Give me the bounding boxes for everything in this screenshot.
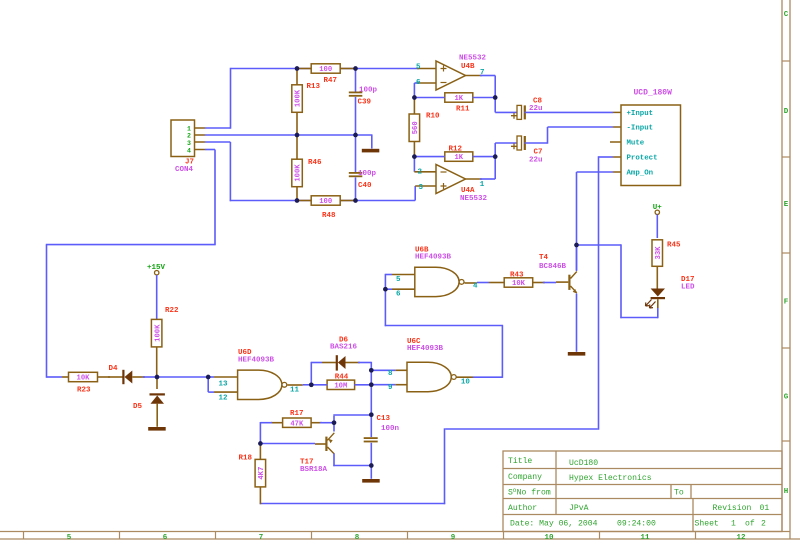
svg-text:2: 2	[187, 133, 191, 140]
R47 leads	[297, 68, 311, 70]
sheet border bottom inner line	[0, 531, 790, 533]
wire J7 pin1 to top rail	[205, 127, 231, 129]
wire J7 pin4 long loop left	[205, 149, 215, 151]
svg-text:12: 12	[736, 534, 746, 542]
resistor R23	[69, 372, 98, 381]
svg-text:of: of	[745, 520, 755, 529]
svg-text:D4: D4	[109, 365, 119, 373]
svg-text:4: 4	[187, 147, 191, 154]
module UCD_180W	[621, 105, 681, 186]
svg-text:11: 11	[290, 386, 300, 394]
svg-text:Protect: Protect	[627, 155, 658, 163]
wire D6/R44 right junction column	[370, 362, 372, 437]
U4A pin2 wire	[413, 157, 415, 172]
svg-text:R12: R12	[449, 146, 463, 154]
svg-text:2: 2	[761, 520, 766, 529]
svg-text:HEF4093B: HEF4093B	[238, 357, 275, 365]
R48 leads	[297, 200, 311, 202]
sheet border bottom outer line	[0, 538, 800, 540]
wire U4B pin5 stub	[417, 68, 436, 70]
svg-text:4K7: 4K7	[258, 467, 266, 480]
svg-text:8: 8	[355, 534, 360, 542]
svg-text:LED: LED	[681, 283, 695, 291]
U6B input wires	[385, 274, 392, 276]
svg-text:10: 10	[461, 379, 471, 387]
svg-text:Author: Author	[508, 504, 537, 513]
resistor R17	[283, 418, 312, 427]
R45 leads	[656, 266, 658, 288]
svg-text:Date: May 06, 2004: Date: May 06, 2004	[510, 520, 598, 529]
svg-text:C7: C7	[534, 149, 543, 157]
wire Amp_On net down	[577, 171, 614, 173]
svg-text:+15V: +15V	[147, 264, 166, 272]
T17 collector wire down	[333, 454, 335, 467]
resistor R12	[445, 152, 473, 161]
resistor R18	[255, 459, 266, 487]
svg-text:E: E	[784, 201, 789, 209]
svg-text:JPvA: JPvA	[569, 504, 589, 513]
svg-text:01: 01	[760, 504, 770, 513]
wire R17 left down to base net	[259, 422, 261, 444]
svg-text:100K: 100K	[295, 89, 303, 107]
svg-text:10M: 10M	[334, 382, 347, 390]
wire base net to T17	[260, 443, 315, 445]
svg-text:100: 100	[319, 66, 332, 74]
svg-text:33K: 33K	[655, 246, 663, 260]
wire LED branch	[577, 244, 622, 246]
svg-text:5: 5	[396, 276, 401, 284]
U4B output pin7 wire	[466, 75, 483, 77]
resistor R46	[292, 159, 303, 187]
svg-text:10K: 10K	[512, 280, 526, 288]
U6C input wires	[371, 369, 395, 371]
bottom column numbers 5-12	[67, 534, 746, 542]
svg-text:R22: R22	[165, 307, 179, 315]
R13 leads	[296, 69, 298, 85]
resistor R22	[151, 319, 162, 347]
svg-text:R47: R47	[324, 77, 338, 85]
title block outline	[503, 451, 782, 532]
resistor R47	[311, 64, 340, 73]
capacitor C8	[494, 98, 496, 113]
wire T17 collector to C13 line	[333, 416, 335, 432]
connector J7	[171, 120, 195, 157]
svg-text:100: 100	[319, 198, 332, 206]
svg-text:Hypex Electronics: Hypex Electronics	[569, 474, 652, 483]
svg-text:HEF4093B: HEF4093B	[415, 254, 452, 262]
R17 leads	[311, 422, 322, 424]
svg-text:U4A: U4A	[461, 187, 475, 195]
svg-text:12: 12	[219, 395, 229, 403]
svg-text:6: 6	[163, 534, 168, 542]
resistor R48	[311, 196, 340, 205]
svg-text:D: D	[784, 108, 789, 116]
svg-text:T4: T4	[539, 254, 549, 262]
wire Protect net	[599, 156, 614, 158]
ground stub on pin2 rail	[371, 135, 373, 149]
resistor R13	[292, 85, 303, 113]
R18 leads	[259, 444, 261, 460]
op-amp U4A	[436, 165, 466, 194]
R44 leads	[311, 384, 327, 386]
svg-text:Sheet: Sheet	[695, 520, 719, 529]
svg-text:47K: 47K	[290, 420, 304, 428]
svg-text:SONo from: SONo from	[508, 487, 551, 498]
right row ticks	[782, 61, 790, 441]
capacitor C39	[355, 69, 357, 92]
R12 leads and rail	[414, 156, 444, 158]
svg-text:22u: 22u	[529, 105, 543, 113]
svg-text:C: C	[784, 11, 789, 19]
svg-text:7: 7	[480, 69, 485, 77]
T4 collector wire	[576, 245, 578, 271]
svg-text:2: 2	[418, 169, 423, 177]
svg-text:Revision: Revision	[713, 504, 752, 513]
capacitor C13	[364, 437, 378, 439]
svg-text:R13: R13	[307, 83, 321, 91]
svg-text:R44: R44	[335, 373, 349, 381]
U6B output wire to R43	[465, 282, 478, 284]
ground symbol near C39	[362, 149, 380, 153]
svg-text:C13: C13	[377, 415, 391, 423]
svg-text:D5: D5	[133, 403, 143, 411]
+15V wire to R22	[156, 275, 158, 320]
wire top rail y=68.5	[231, 68, 420, 70]
svg-text:100p: 100p	[359, 86, 378, 94]
svg-text:UcD180: UcD180	[569, 459, 598, 468]
R23 leads	[62, 376, 69, 378]
wire J7 pin3 down to bottom rail	[205, 141, 230, 143]
svg-text:100p: 100p	[358, 170, 377, 178]
sheet border right inner line	[781, 0, 783, 532]
diode D4	[108, 376, 123, 378]
svg-text:U4B: U4B	[461, 63, 475, 71]
ground symbol under T4	[568, 352, 586, 356]
R11 leads and rail	[414, 97, 444, 99]
svg-text:G: G	[784, 394, 789, 402]
svg-text:100K: 100K	[154, 324, 162, 342]
bottom column ticks	[24, 532, 696, 540]
wire U6B inputs to U6C output	[385, 325, 503, 327]
wire J7 pin2 rail y=135	[205, 134, 373, 136]
svg-text:100n: 100n	[381, 425, 400, 433]
resistor R10	[409, 114, 420, 142]
svg-text:HEF4093B: HEF4093B	[407, 345, 444, 353]
transistor T4	[568, 275, 570, 290]
right row letters C-H	[784, 11, 789, 496]
diode D6	[310, 362, 312, 385]
R22 leads	[156, 347, 158, 377]
R10 leads	[413, 98, 415, 115]
ground symbol under D5	[148, 427, 166, 431]
svg-text:3: 3	[419, 184, 424, 192]
resistor R44	[327, 380, 355, 389]
svg-text:Mute: Mute	[627, 140, 645, 148]
capacitor C7	[494, 143, 496, 157]
svg-text:F: F	[784, 299, 789, 307]
svg-text:100K: 100K	[295, 164, 303, 182]
svg-text:9: 9	[451, 534, 456, 542]
resistor R11	[445, 93, 473, 102]
svg-text:6: 6	[416, 79, 421, 87]
svg-text:10: 10	[544, 534, 554, 542]
svg-text:R45: R45	[667, 241, 681, 249]
svg-text:R17: R17	[290, 410, 304, 418]
capacitor C40	[355, 135, 357, 172]
svg-text:BC846B: BC846B	[539, 263, 567, 271]
svg-text:5: 5	[67, 534, 72, 542]
U6D input wires	[157, 376, 209, 378]
svg-text:-Input: -Input	[627, 125, 654, 133]
U4B pin6 wire	[413, 83, 415, 98]
svg-text:1: 1	[731, 520, 736, 529]
svg-text:1K: 1K	[454, 95, 463, 103]
wire C13 bottom to ground	[370, 466, 372, 479]
power port U+	[655, 210, 659, 214]
svg-text:BSR18A: BSR18A	[300, 466, 328, 474]
svg-text:8: 8	[388, 370, 393, 378]
svg-text:NE5532: NE5532	[459, 54, 487, 62]
svg-text:UCD_180W: UCD_180W	[634, 89, 673, 98]
svg-text:09:24:00: 09:24:00	[617, 520, 656, 529]
svg-text:R46: R46	[308, 159, 322, 167]
T4 emitter wire to ground	[576, 294, 578, 352]
svg-text:U+: U+	[653, 204, 663, 212]
svg-text:R23: R23	[77, 387, 91, 395]
svg-text:R43: R43	[510, 271, 524, 279]
svg-text:1K: 1K	[454, 154, 463, 162]
LED D17	[651, 289, 665, 297]
svg-text:4: 4	[473, 282, 478, 290]
U6D output wire pin 11	[287, 384, 302, 386]
svg-text:22u: 22u	[529, 157, 543, 165]
svg-text:R11: R11	[456, 106, 470, 114]
U4A output pin1 wire	[466, 178, 483, 180]
R46 leads	[296, 135, 298, 159]
svg-text:BAS216: BAS216	[330, 343, 358, 351]
svg-text:+Input: +Input	[627, 110, 654, 118]
transistor T17	[325, 437, 327, 451]
diode D5	[156, 377, 158, 389]
svg-text:1: 1	[187, 125, 191, 132]
ground symbol under C13	[362, 479, 380, 483]
U4A pin3 wire	[414, 186, 416, 201]
svg-text:5: 5	[416, 64, 421, 72]
power port +15V	[155, 271, 159, 275]
svg-text:C39: C39	[358, 98, 372, 106]
op-amp U4B	[436, 61, 466, 90]
svg-text:9: 9	[388, 384, 393, 392]
UCD pins stubs	[610, 112, 621, 172]
svg-text:11: 11	[640, 534, 650, 542]
svg-text:R18: R18	[239, 455, 253, 463]
U6C output stub	[456, 376, 473, 378]
gate U6B	[415, 267, 459, 296]
resistor R45	[652, 240, 663, 266]
R43 leads	[489, 282, 504, 284]
svg-text:3: 3	[187, 140, 191, 147]
svg-text:CON4: CON4	[175, 166, 194, 174]
svg-text:R10: R10	[426, 113, 440, 121]
svg-text:R48: R48	[322, 212, 336, 220]
title block text	[508, 457, 769, 529]
svg-text:10K: 10K	[77, 375, 91, 383]
svg-text:1: 1	[480, 181, 485, 189]
svg-text:H: H	[784, 488, 789, 496]
svg-text:7: 7	[259, 534, 264, 542]
sheet border right outer line	[789, 0, 791, 539]
svg-text:Amp_On: Amp_On	[627, 170, 654, 178]
svg-text:NE5532: NE5532	[460, 195, 488, 203]
U+ wire to R45	[656, 215, 658, 239]
svg-text:13: 13	[219, 381, 229, 389]
J7 pin numbers 1 2 3 4	[187, 125, 191, 154]
gate U6C	[407, 362, 451, 391]
svg-text:Title: Title	[508, 457, 532, 466]
gate U6D	[238, 370, 282, 399]
svg-text:Company: Company	[508, 473, 542, 482]
UCD pin names	[627, 110, 658, 178]
svg-text:6: 6	[396, 291, 401, 299]
resistor R43	[504, 278, 533, 287]
D17 emission arrows	[650, 302, 656, 309]
svg-text:To: To	[674, 489, 684, 498]
svg-text:560: 560	[412, 121, 420, 134]
wire bottom rail y=200.5	[230, 200, 416, 202]
svg-text:C40: C40	[358, 182, 372, 190]
